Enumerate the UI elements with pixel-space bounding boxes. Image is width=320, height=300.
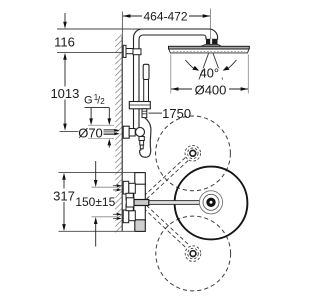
svg-text:Ø400: Ø400 <box>195 83 227 98</box>
head mount cone <box>201 44 222 46</box>
thermostat knob bottom <box>135 220 146 232</box>
wall union flange <box>123 45 126 57</box>
shower head body <box>169 49 249 53</box>
rod sleeve <box>134 200 149 206</box>
thermostat mid block upper <box>129 183 136 193</box>
svg-text:40°: 40° <box>200 66 219 81</box>
shower rail pipe <box>133 37 135 128</box>
dashed hand shower handle upper <box>144 157 189 199</box>
diverter ball <box>136 128 145 137</box>
label 1750 leader <box>149 112 163 114</box>
spray angle arc arrow left <box>185 60 194 69</box>
wall union pipe <box>126 49 134 54</box>
thermostat escutcheon upper <box>123 181 129 194</box>
union nut at rail <box>133 49 141 55</box>
dim 150±15 arrows <box>95 161 97 181</box>
dim 116 arrows <box>64 13 66 23</box>
shower arm pipe <box>142 28 209 30</box>
Ø70 vertical dim arrows <box>108 139 112 146</box>
rail bottom wall bracket <box>123 126 129 138</box>
shower hose <box>140 118 151 158</box>
G1/2 supply stub arrows at rail fitting <box>104 130 115 135</box>
dim 1013 line + arrows <box>63 53 67 60</box>
svg-text:Ø70: Ø70 <box>78 125 103 140</box>
hand shower lower grip + hose nipple <box>142 109 147 118</box>
svg-text:1750: 1750 <box>162 106 191 121</box>
holder on rail <box>129 102 150 109</box>
dim 317 line + arrows <box>62 173 66 180</box>
dim 464-472 line + arrows <box>123 15 210 17</box>
Ø70 extension lines <box>88 124 114 126</box>
hose connector below ball <box>139 137 144 141</box>
supply stub arrows lower (thermostat) <box>113 213 117 215</box>
dashed hand shower handle lower <box>144 205 189 247</box>
hand shower head <box>143 64 149 79</box>
spray holes dashed line <box>173 51 245 53</box>
dim Ø400 extension lines <box>170 55 172 94</box>
dashed head rings lower <box>190 251 196 257</box>
svg-text:464-472: 464-472 <box>143 10 187 24</box>
rail bottom cylinder <box>129 129 135 137</box>
dim 464-472 extension line right <box>210 9 212 42</box>
dim 116 extension lines <box>57 28 142 30</box>
spray angle arc arrow right <box>228 60 237 69</box>
spray cone V lines <box>199 54 209 80</box>
shower head rim <box>169 46 250 49</box>
svg-text:1013: 1013 <box>50 86 79 101</box>
thermostat mid block lower <box>129 211 136 221</box>
arm elbow left (to rail) <box>134 29 143 38</box>
head mount nut <box>206 39 218 45</box>
svg-text:2: 2 <box>100 97 105 106</box>
dashed head rings upper <box>190 150 196 156</box>
dashed spray circle upper <box>156 116 231 191</box>
dim 150±15 extension lines <box>92 186 119 188</box>
svg-text:G: G <box>84 95 93 107</box>
svg-text:317: 317 <box>53 189 75 204</box>
text 40° white backing <box>203 68 223 78</box>
hand shower rod (horizontal) <box>149 201 209 205</box>
svg-text:150±15: 150±15 <box>75 195 115 209</box>
arm elbow right (to head) <box>209 29 218 40</box>
thermostat step block upper <box>126 193 133 200</box>
G 1/2 leader bracket <box>85 108 110 120</box>
thermostat body <box>134 184 146 220</box>
thermostat knob top <box>135 173 146 185</box>
thermostat outlet center <box>126 198 134 207</box>
svg-text:116: 116 <box>54 34 75 49</box>
dashed spray circle lower <box>156 216 231 291</box>
dim 464-472 extension line left <box>121 12 123 37</box>
wall hatching <box>115 34 122 232</box>
wall face line <box>121 36 123 231</box>
dim 317 extension lines <box>59 172 145 174</box>
solid head rings <box>199 191 222 214</box>
dim Ø400 line + arrows <box>171 88 192 90</box>
hand shower handle <box>144 80 149 102</box>
dim 1013 bottom extension line <box>60 131 79 133</box>
solid spray circle <box>175 167 248 240</box>
thermostat escutcheon lower <box>123 210 129 223</box>
thermostat step block lower <box>126 204 133 211</box>
supply stub arrows upper (thermostat) <box>113 185 117 187</box>
